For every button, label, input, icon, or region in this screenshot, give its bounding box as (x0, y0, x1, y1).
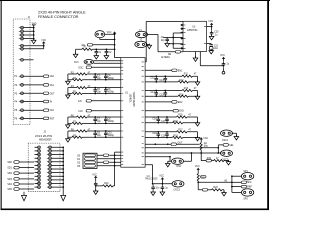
svg-text:IN: IN (50, 102, 53, 104)
svg-text:C16: C16 (152, 118, 157, 120)
wire: R16 row (145, 122, 197, 124)
speaker SPKR1 (241, 171, 253, 180)
oscillator X2 (172, 158, 184, 168)
capacitor C17 (161, 116, 169, 123)
IC U5 pin arrows (181, 24, 183, 49)
capacitor C9 (93, 130, 101, 138)
connector J1 dashed outline (13, 19, 30, 125)
svg-text:CLK: CLK (78, 111, 83, 113)
crystal Y1 (136, 30, 148, 38)
ground (X2 case) (166, 161, 171, 167)
capacitor C7 (93, 116, 101, 124)
ground (C11) (93, 189, 98, 194)
node: osc bus junctions (114, 33, 116, 50)
ground (R4/R5) (66, 93, 71, 98)
svg-text:C13: C13 (159, 80, 164, 82)
wire: crystal bus (173, 33, 183, 48)
svg-text:REF: REF (247, 187, 252, 189)
ground (C2) (104, 54, 109, 59)
node: VCC rail junction (211, 26, 213, 28)
wire: R13/R14 common leg (197, 91, 199, 97)
resistor R13 (182, 88, 197, 92)
svg-text:VCC: VCC (203, 138, 208, 140)
svg-text:16245DL: 16245DL (129, 94, 131, 104)
svg-text:VCC: VCC (220, 55, 225, 57)
J2 left net label row 1 (7, 161, 34, 164)
power flag VCC (pullup) (92, 174, 97, 178)
net label pill row 8 (43, 75, 48, 78)
net label pill row 12 (43, 109, 48, 112)
wire: R17/R18 common leg (197, 132, 199, 138)
svg-text:EN: EN (78, 101, 82, 103)
wire: pin 11 net (24, 101, 44, 103)
wire: U1 data row D (145, 156, 171, 161)
wire: pins 5-6 to VCC (24, 43, 44, 49)
crystal Y2 (135, 40, 147, 48)
wire: U1 to U5 link (145, 22, 183, 62)
wire: Q1 outputs to bus (100, 34, 121, 58)
connector J2 dashed outline (28, 143, 60, 192)
resistor R8 (71, 129, 91, 132)
svg-text:OSC3: OSC3 (174, 190, 181, 192)
net label pill MIC2 (232, 185, 253, 188)
oscillator OSC3 (172, 181, 184, 192)
net label pill DA (171, 142, 183, 145)
svg-text:HEADER: HEADER (39, 137, 52, 141)
power flag VCC (U4) (159, 175, 164, 179)
svg-text:1000p: 1000p (108, 135, 115, 137)
net label pill OSCSEL (223, 144, 234, 147)
capacitor C22 (222, 62, 230, 67)
ground (C25) (165, 42, 170, 47)
resistor R20 (212, 158, 225, 162)
oscillator XO1 (74, 60, 94, 65)
svg-text:MIC: MIC (247, 182, 252, 184)
ground (R8/R9) (66, 137, 71, 142)
power flag VCC (U5 rail) (208, 21, 213, 25)
node: shield bus junctions (33, 27, 35, 29)
wire: bus to SPKR1 (232, 175, 242, 177)
capacitor C2 (105, 48, 113, 54)
capacitor C13 (159, 75, 167, 82)
wire: R14 row (145, 95, 197, 97)
ground (R2/R3) (66, 80, 71, 85)
ground (R23) (222, 190, 227, 196)
svg-text:SD1: SD1 (7, 168, 12, 170)
wire: R11 row (145, 75, 197, 77)
J1 pin 4 (19, 37, 24, 40)
wire: VCC rail to U5 (207, 25, 212, 31)
resistor R1 (82, 46, 93, 50)
capacitor C16 (152, 116, 160, 123)
wire: pin 10 net (24, 92, 44, 94)
resistor pack RN1 body (83, 153, 97, 168)
power flag VCC (aux rail) (220, 55, 225, 59)
net label pill R20 (206, 158, 212, 162)
wire: R9 row to U1 (68, 136, 121, 138)
resistor R7 (72, 122, 83, 125)
ground (U5) (193, 56, 198, 61)
ground (Y2) (147, 44, 152, 49)
power flag VCC (divider) (195, 166, 200, 170)
capacitor C15 (159, 90, 167, 97)
capacitor C21 polarized (207, 44, 219, 51)
J2 left net label row 3 (7, 172, 34, 175)
node: pullup junction (95, 185, 97, 187)
resistor R12 (178, 80, 189, 83)
ground (R15/R16) (195, 121, 200, 126)
ground (C20) (209, 35, 214, 40)
wire: pin 8 net (24, 75, 44, 77)
svg-text:SD4: SD4 (7, 184, 12, 186)
wire: R1 row (76, 49, 115, 54)
IC U5 pin ticks (184, 25, 207, 48)
resistor R9 (72, 135, 83, 138)
wire: bus to SPKR2 (232, 191, 242, 193)
svg-text:C17: C17 (161, 121, 166, 123)
RN1 element 2 (77, 158, 95, 161)
svg-text:SD3: SD3 (7, 179, 12, 181)
svg-text:EPM7064: EPM7064 (187, 30, 198, 32)
IC U1 body (121, 58, 145, 168)
node: divider junction (197, 181, 199, 183)
resistor R2 (71, 72, 91, 75)
IC U4 label (145, 176, 158, 181)
speaker SPKR2 (241, 189, 253, 201)
wire: U5 ground leg (195, 52, 197, 59)
svg-text:C19: C19 (161, 136, 166, 138)
capacitor C5 (93, 87, 101, 95)
svg-text:VCC: VCC (159, 175, 164, 177)
svg-text:CLK: CLK (50, 110, 55, 112)
svg-text:R22: R22 (201, 177, 206, 179)
svg-text:74LVC1G05: 74LVC1G05 (145, 179, 158, 181)
J1 pin 5 (19, 44, 24, 47)
sheet border frame (0, 0, 270, 210)
wire: XO1 to U1 (94, 61, 121, 63)
node: R21 foot (200, 152, 202, 154)
J2 row 7 pins (35, 168, 65, 171)
capacitor C8 (104, 116, 115, 124)
resistor R5 (72, 92, 83, 95)
resistor R18 (172, 136, 183, 139)
IC U5 body (183, 21, 207, 51)
ground (R17/R18) (195, 136, 200, 141)
wire: R18 row (145, 137, 197, 139)
svg-text:ALTERA: ALTERA (161, 56, 170, 59)
net label pill OE (168, 51, 183, 57)
wire: U1 data row A (145, 143, 200, 145)
wire: U1 lower-left bus (115, 152, 121, 186)
wire: pin 9 net (24, 84, 44, 86)
wire: R13 row (145, 90, 197, 92)
J2 left net label row 6 (7, 188, 34, 191)
svg-text:VCC: VCC (208, 21, 213, 23)
net label pill OUT3 (145, 109, 184, 112)
J1 pin 3 (19, 34, 24, 37)
wire: pin 12 net (24, 109, 44, 111)
svg-text:R23: R23 (214, 187, 219, 189)
J1 pin 7 (19, 58, 24, 61)
wire: R15/R16 common leg (197, 117, 199, 123)
ground (C1) (94, 54, 99, 59)
net label pill GB (103, 161, 108, 164)
capacitor C3 (93, 73, 101, 80)
oscillator OSC-B (221, 150, 233, 161)
wire: OSC select branch (217, 145, 223, 154)
net label pill OUT2 (145, 101, 183, 104)
wire: aux rail lower (223, 67, 225, 71)
J2 row 1 pins (35, 146, 65, 149)
J2 row 11 pins (35, 182, 65, 185)
ground (R20) (224, 160, 231, 165)
net label pill row 11 (43, 100, 48, 103)
svg-text:SEL: SEL (229, 145, 234, 147)
J2 row 4 pins (35, 157, 65, 160)
net label pill row 13 (43, 117, 48, 120)
wire: R15 row (145, 116, 197, 118)
svg-text:R20: R20 (207, 158, 212, 160)
node: VCC feed junction (43, 45, 45, 47)
node: crystal bus junctions (172, 37, 174, 45)
power flag VCC (osc2 pullup) (200, 137, 209, 140)
ground (C23) (151, 190, 156, 195)
capacitor C25 (161, 37, 169, 42)
capacitor C14 (150, 90, 158, 97)
svg-text:OSC2: OSC2 (222, 159, 229, 161)
svg-text:74ABT16245: 74ABT16245 (132, 92, 136, 108)
svg-text:1000p: 1000p (108, 121, 115, 123)
ground (R6/R7) (66, 123, 71, 128)
wire: R6/R7 common leg (67, 117, 69, 125)
resistor R16 (172, 121, 183, 124)
svg-text:SD5: SD5 (7, 189, 12, 191)
wire: R11/R12 common leg (197, 76, 199, 82)
svg-text:VA1: VA1 (50, 84, 55, 87)
wire: R21 to oscillator B (201, 152, 221, 154)
resistor R6 (71, 115, 91, 118)
resistor R11 (182, 74, 197, 78)
J2 row 3 pins (35, 153, 65, 156)
J2 row 6 pins (35, 164, 65, 167)
capacitor C12 (150, 75, 158, 82)
capacitor C18 (152, 131, 160, 138)
wire: aux rail (200, 52, 223, 66)
ground (R1 left) (73, 52, 78, 57)
wire: R12 row (145, 81, 197, 83)
wire: U1 data row C (145, 152, 201, 161)
resistor R4 (71, 86, 91, 89)
RN1 element 4 (77, 165, 95, 168)
wire: R4/R5 common leg (67, 88, 69, 95)
net label pill GA (103, 154, 108, 157)
resistor R23 (208, 187, 222, 191)
svg-text:SP2: SP2 (243, 199, 248, 201)
svg-text:RST: RST (50, 118, 55, 120)
wire: C25 row to U5 (167, 38, 183, 44)
wire: divider output (198, 181, 232, 183)
capacitor C23 (151, 184, 160, 191)
wire: U1 data row B (long) (145, 147, 218, 149)
IC U1 pin number ticks right (142, 62, 144, 165)
net label pill OUT1 (145, 69, 183, 72)
wire: RN1 outputs to U1 (97, 155, 121, 166)
svg-text:SP1: SP1 (243, 171, 248, 173)
ground (C24) (160, 190, 165, 195)
IC U1 pin number ticks left (121, 61, 123, 165)
J2 row 8 pins (35, 171, 65, 174)
ground (OSC-A) (232, 133, 239, 140)
J2 row 5 pins (35, 160, 65, 163)
svg-text:VA0: VA0 (50, 75, 55, 78)
RN1 element 3 (77, 161, 95, 164)
wire: RP rail to R20 row (201, 153, 206, 161)
svg-text:OUT: OUT (178, 142, 183, 144)
svg-text:VCC: VCC (92, 174, 97, 176)
net label pill row 9 (43, 84, 48, 87)
wire: VCC stem (161, 179, 163, 183)
svg-text:EN3: EN3 (179, 111, 184, 113)
resistor R15 (177, 115, 192, 119)
svg-text:EN2: EN2 (178, 102, 183, 104)
svg-text:47K: 47K (204, 146, 209, 148)
wire: R6 row to U1 (68, 116, 121, 118)
svg-text:OSC: OSC (176, 166, 181, 168)
svg-text:C14: C14 (150, 92, 155, 94)
J2 left net label row 2 (7, 166, 34, 169)
wire: R5 row to U1 (68, 93, 121, 95)
J1 pin 2 (19, 30, 24, 33)
wire: R17 row (145, 131, 197, 133)
svg-text:C12: C12 (150, 78, 155, 80)
oscillator Q1 (95, 31, 105, 38)
svg-text:XO1: XO1 (74, 62, 79, 64)
wire: J2 left ground stub (23, 192, 25, 196)
capacitor C19 (161, 131, 169, 138)
IC U5 left pin stubs (181, 25, 184, 48)
node: lower-left bus junctions (114, 154, 116, 166)
wire: R2/R3 common leg (67, 74, 69, 81)
svg-text:OUT: OUT (50, 93, 55, 95)
J2 row 12 pins (35, 186, 65, 189)
ground (shield) (31, 39, 36, 44)
svg-text:OSC1: OSC1 (222, 140, 229, 142)
svg-text:OE: OE (168, 54, 172, 56)
svg-text:1000p: 1000p (108, 78, 115, 80)
capacitor C6 (104, 87, 115, 95)
resistor R3 (72, 78, 83, 81)
J2 left net label row 5 (7, 183, 34, 186)
J2 left net label row 4 (7, 178, 34, 181)
capacitor C24 (161, 184, 169, 191)
svg-text:SD0: SD0 (7, 162, 12, 164)
node: right output bus junctions (231, 175, 233, 187)
power flag VCC (osc rail) (107, 31, 117, 34)
wire: Y1 output (148, 35, 176, 52)
wire: U1 to OSC3 net (145, 165, 173, 185)
wire: pin 7 stub (24, 59, 34, 61)
net label pill R23 (202, 189, 207, 192)
ground (R11/R12) (195, 80, 200, 85)
capacitor C1 (95, 48, 103, 54)
svg-text:FEMALE CONNECTOR: FEMALE CONNECTOR (38, 14, 79, 19)
capacitor C20 (210, 31, 219, 37)
svg-text:C18: C18 (152, 133, 157, 135)
resistor R10 (103, 183, 114, 187)
wire: output bus vertical (231, 176, 233, 193)
resistor R21 (200, 140, 208, 154)
ground J2 left (22, 195, 27, 201)
wire: divider lower leg (198, 182, 202, 190)
svg-text:OSC: OSC (78, 67, 83, 69)
svg-text:1000p: 1000p (108, 92, 115, 94)
resistor R14 (178, 94, 189, 97)
J1 pin 6 (19, 47, 24, 50)
resistor R22 (197, 170, 199, 182)
wire: R7 row to U1 (68, 122, 121, 124)
svg-text:SD2: SD2 (7, 173, 12, 175)
wire: R2 row to U1 (68, 73, 121, 75)
wire: R8 row to U1 (68, 130, 121, 132)
J2 row 2 pins (35, 149, 65, 152)
wire: R4 row to U1 (68, 87, 121, 89)
net label pill CLK2 (78, 109, 121, 112)
test point TP1 (222, 71, 225, 74)
J1 pin 1 (19, 26, 24, 29)
resistor R17 (177, 129, 192, 133)
wire: R3 row to U1 (68, 79, 121, 81)
oscillator OSC-A (221, 130, 233, 142)
net label pill MIC1 (232, 181, 252, 184)
net label pill R22 (201, 176, 207, 179)
capacitor C10 (104, 130, 115, 138)
net label pill XEN (82, 44, 116, 47)
J2 row 9 pins (35, 175, 65, 178)
ground (C21) (209, 49, 214, 54)
svg-text:VCC: VCC (195, 166, 200, 168)
J2 row 10 pins (35, 178, 65, 181)
capacitor C4 (104, 73, 115, 80)
ground (R13/R14) (195, 94, 200, 99)
net label pill EN (78, 100, 121, 103)
wire: pullup row (96, 185, 115, 187)
wire: pin 13 net (24, 117, 44, 119)
capacitor C11 (94, 178, 98, 191)
wire: pins 1-4 to shield bus (24, 25, 34, 40)
RN1 element 1 (77, 154, 95, 157)
svg-text:C15: C15 (159, 94, 164, 96)
net label pill row 10 (43, 92, 48, 95)
net label pill OSC (78, 66, 121, 69)
wire: R8/R9 common leg (67, 131, 69, 139)
svg-text:EN1: EN1 (178, 70, 183, 72)
wire: J2 right ground bus (62, 148, 64, 195)
ground J2 right (61, 195, 66, 201)
